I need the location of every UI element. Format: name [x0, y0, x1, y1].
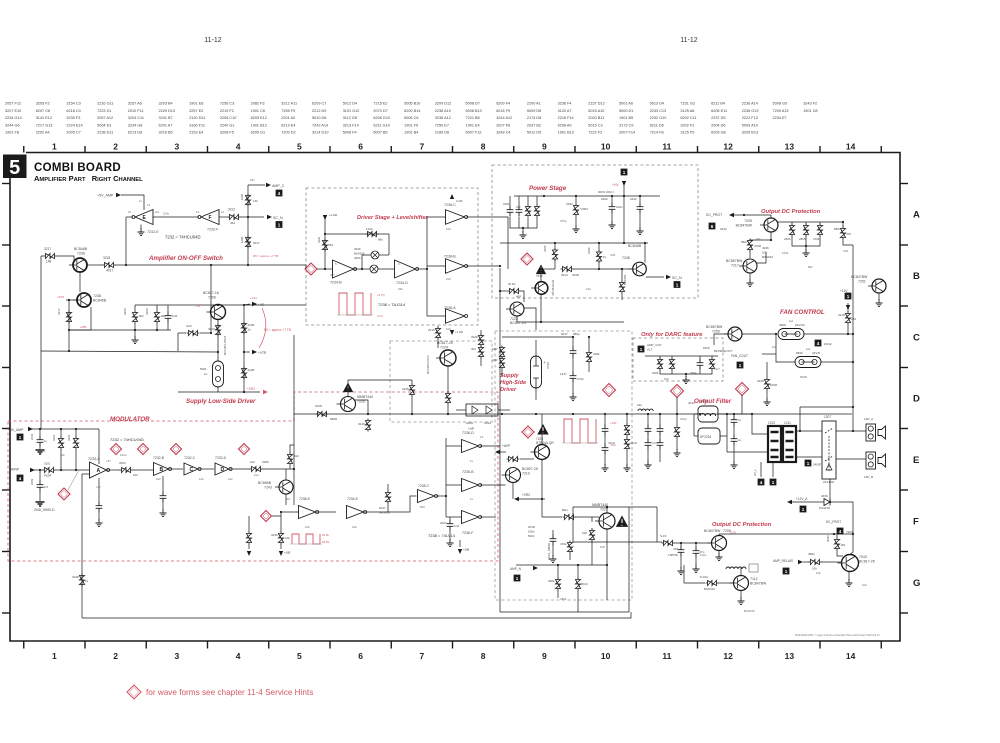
svg-text:2200 A1: 2200 A1 — [527, 102, 541, 106]
resistor 3277 — [709, 358, 714, 371]
svg-text:7234-B: 7234-B — [330, 281, 342, 285]
wire conn stub b — [772, 462, 774, 477]
wire — [598, 262, 600, 269]
ferrite KF2234 — [698, 428, 720, 444]
svg-text:A: A — [913, 210, 920, 221]
warning high-side — [343, 383, 353, 393]
svg-text:4k7: 4k7 — [330, 273, 335, 277]
svg-text:7219: 7219 — [522, 472, 530, 476]
wire — [39, 492, 41, 502]
wire — [446, 484, 462, 486]
junction — [210, 332, 212, 334]
inverter/op-amp inverter 7232-D — [215, 463, 229, 475]
svg-text:1k0: 1k0 — [446, 277, 451, 281]
resistor 6017 — [385, 491, 390, 504]
svg-text:FAN CONTROL: FAN CONTROL — [780, 309, 825, 316]
capacitor 2232 — [37, 436, 44, 447]
svg-text:10k: 10k — [816, 571, 821, 575]
wire — [134, 330, 136, 337]
wire vertical x69 — [68, 300, 70, 330]
inverter/op-amp inverter 7232-C — [184, 463, 198, 475]
svg-text:3218: 3218 — [838, 313, 845, 317]
junction — [60, 428, 62, 430]
svg-text:2232 G10: 2232 G10 — [650, 116, 667, 120]
wire — [718, 534, 720, 536]
resistor 3245 — [409, 384, 414, 397]
svg-text:7238 = 74LV14: 7238 = 74LV14 — [428, 533, 456, 538]
svg-text:1901 B13: 1901 B13 — [558, 131, 574, 135]
wire feedback rail — [325, 233, 389, 235]
wire relay coil down — [829, 479, 831, 502]
svg-text:47k: 47k — [756, 237, 761, 241]
svg-text:2240 G1: 2240 G1 — [220, 123, 235, 127]
svg-text:6: 6 — [711, 224, 714, 229]
svg-text:3218: 3218 — [103, 256, 110, 260]
svg-text:2070 D7: 2070 D7 — [373, 109, 387, 113]
svg-text:BC846B: BC846B — [74, 247, 88, 251]
svg-text:10k: 10k — [586, 287, 591, 291]
resistor 3204 — [73, 437, 78, 450]
svg-text:2236 A14: 2236 A14 — [742, 102, 758, 106]
svg-text:1k2: 1k2 — [156, 477, 161, 481]
svg-text:6208 A9: 6208 A9 — [558, 123, 572, 127]
svg-text:BC847BW: BC847BW — [736, 224, 753, 228]
wire — [577, 590, 579, 612]
svg-text:14: 14 — [147, 203, 151, 207]
diamond mod D — [239, 444, 250, 455]
svg-text:3234 G8: 3234 G8 — [128, 123, 143, 127]
resistor 3017 — [245, 236, 250, 249]
wire long bottom return — [82, 612, 631, 618]
svg-text:3205: 3205 — [543, 245, 547, 252]
resistor 2236 — [241, 322, 246, 335]
transistor transistor 7223 — [510, 302, 524, 316]
junction — [743, 214, 745, 216]
resistor 3212 — [228, 214, 241, 219]
svg-text:7221 B8: 7221 B8 — [466, 116, 480, 120]
svg-text:7210: 7210 — [536, 274, 543, 278]
svg-text:11: 11 — [662, 651, 671, 661]
wire — [878, 293, 880, 300]
svg-text:220p: 220p — [680, 417, 687, 421]
wire — [720, 435, 727, 437]
svg-text:3101 G12: 3101 G12 — [343, 109, 360, 113]
svg-text:5001: 5001 — [200, 367, 207, 371]
wire — [714, 334, 728, 345]
grid-ref square grid ref RINP — [17, 475, 24, 482]
wire — [575, 516, 599, 518]
svg-text:+VR2: +VR2 — [247, 387, 255, 391]
svg-text:3216 B5: 3216 B5 — [159, 131, 173, 135]
svg-text:100n: 100n — [616, 205, 623, 209]
wire 7236 to 3218 — [87, 264, 103, 266]
wire relay to spk1 — [836, 430, 866, 432]
wire — [427, 315, 446, 317]
svg-text:3280: 3280 — [262, 460, 269, 464]
wire — [621, 293, 623, 300]
svg-text:5004 E3: 5004 E3 — [97, 123, 111, 127]
svg-text:9: 9 — [542, 651, 547, 661]
inductor 5002 — [638, 409, 653, 411]
wire — [659, 414, 661, 425]
resistor 2215 — [435, 327, 440, 340]
junction — [247, 264, 249, 266]
junction — [659, 413, 661, 415]
wire — [718, 413, 752, 415]
svg-text:BAS316: BAS316 — [704, 587, 715, 591]
svg-text:6211 D6: 6211 D6 — [650, 123, 664, 127]
junction — [543, 195, 545, 197]
svg-text:2232: 2232 — [30, 433, 34, 440]
capacitor 2264 — [657, 425, 664, 436]
svg-text:1: 1 — [676, 283, 679, 288]
svg-text:1212: 1212 — [768, 421, 775, 425]
inductor 4012 — [698, 406, 718, 422]
svg-text:7232-F: 7232-F — [207, 228, 219, 232]
transistor transistor 7226 — [341, 397, 356, 412]
wire — [604, 455, 606, 466]
wire — [588, 337, 590, 351]
wire — [572, 337, 574, 347]
svg-text:7215 E2: 7215 E2 — [373, 102, 387, 106]
svg-text:2020 B11: 2020 B11 — [588, 116, 604, 120]
wire — [805, 236, 807, 246]
svg-text:1: 1 — [623, 170, 626, 175]
arrow DC_PROT — [729, 213, 734, 217]
wire x853 into 7043 — [850, 548, 853, 555]
svg-text:5006 C6: 5006 C6 — [404, 116, 418, 120]
wire — [387, 503, 389, 512]
svg-text:6207 C8: 6207 C8 — [36, 109, 50, 113]
svg-text:D: D — [913, 394, 920, 405]
svg-text:7251: 7251 — [858, 280, 866, 284]
svg-text:PH4148: PH4148 — [819, 506, 830, 510]
ground 2258 — [731, 461, 738, 469]
resistor 3229a — [478, 334, 483, 347]
ground 2262 — [645, 461, 652, 469]
resistor 3266 — [507, 456, 520, 461]
svg-text:6213 D8: 6213 D8 — [128, 131, 142, 135]
junction — [604, 413, 606, 415]
wire — [535, 388, 537, 400]
grid-ref square grid ref DARC — [638, 346, 645, 353]
arrow AMP_C — [266, 183, 271, 187]
resistor 3220 — [322, 239, 327, 252]
svg-text:10: 10 — [128, 210, 132, 214]
svg-text:2238: 2238 — [248, 368, 255, 372]
fuse 4609 — [778, 329, 804, 340]
wire — [621, 269, 623, 281]
svg-text:1901 F8: 1901 F8 — [5, 131, 19, 135]
svg-text:8k2: 8k2 — [808, 265, 813, 269]
svg-text:28.8V: 28.8V — [322, 540, 329, 544]
junction — [852, 333, 854, 335]
wire — [41, 255, 44, 257]
wire — [683, 565, 685, 583]
resistor 3202b — [567, 541, 572, 554]
capacitor 2264b — [602, 444, 609, 455]
svg-text:A012: A012 — [484, 421, 491, 425]
svg-text:100n: 100n — [528, 529, 535, 533]
svg-text:8.10A: 8.10A — [700, 575, 708, 579]
svg-text:+AVP: +AVP — [502, 444, 510, 448]
grid-ref square grid ref fan — [815, 340, 822, 347]
wire — [750, 239, 771, 240]
junction — [611, 195, 613, 197]
svg-text:6201 A7: 6201 A7 — [159, 123, 173, 127]
junction — [293, 468, 295, 470]
wire — [498, 409, 510, 411]
wire — [837, 550, 843, 556]
svg-text:7214 F8: 7214 F8 — [650, 131, 664, 135]
svg-text:470p: 470p — [560, 219, 567, 223]
capacitor 2211 — [165, 312, 172, 323]
svg-text:3238: 3238 — [72, 575, 79, 579]
junction — [598, 242, 600, 244]
varistor 4064 — [370, 265, 378, 273]
junction — [572, 413, 574, 415]
svg-text:7234-D: 7234-D — [396, 281, 408, 285]
junction — [217, 304, 219, 306]
wire vertical x500 power rail — [499, 268, 501, 612]
svg-text:+150: +150 — [610, 421, 617, 425]
svg-text:MMBT440: MMBT440 — [592, 503, 608, 507]
wire y322 — [517, 321, 624, 323]
svg-text:BC846B: BC846B — [628, 244, 642, 248]
svg-text:1k2: 1k2 — [133, 473, 138, 477]
wire — [805, 246, 807, 250]
junction — [606, 564, 608, 566]
svg-text:3245: 3245 — [402, 387, 409, 391]
wire vertical x41 supply — [40, 256, 42, 429]
junction — [522, 227, 524, 229]
warning power stage — [536, 265, 546, 275]
svg-text:470R: 470R — [754, 244, 762, 248]
svg-text:2213: 2213 — [546, 362, 550, 369]
svg-text:6218 C4: 6218 C4 — [66, 109, 80, 113]
svg-text:2251: 2251 — [503, 202, 510, 206]
resistor 3276 — [669, 358, 674, 371]
fuse 4610 — [795, 357, 821, 368]
wire +HV — [623, 183, 625, 196]
transistor transistor 7251 — [872, 279, 886, 293]
inverter/op-amp inverter 7238-C — [446, 210, 465, 225]
inverter/op-amp inverter 7238-C2 — [418, 490, 435, 503]
wire 7224 emitter — [447, 366, 449, 392]
svg-text:100u: 100u — [120, 453, 127, 457]
svg-text:U3_L: U3_L — [753, 469, 757, 476]
wire vertical +supply column — [247, 185, 249, 217]
wire x325 — [324, 216, 326, 269]
junction — [623, 242, 625, 244]
svg-text:A: A — [97, 468, 101, 474]
junction — [68, 329, 70, 331]
svg-text:BZX384-C5V6: BZX384-C5V6 — [426, 355, 430, 374]
svg-text:22k: 22k — [398, 287, 403, 291]
svg-text:SC_N: SC_N — [672, 276, 682, 280]
arrow +HV down — [622, 181, 626, 186]
ground 2227 — [447, 539, 454, 547]
transistor transistor 7250 — [728, 327, 742, 341]
wire — [527, 196, 529, 205]
dashed box supply high-side driver — [390, 341, 492, 422]
svg-text:47R: 47R — [610, 253, 615, 257]
resistor 3201 — [58, 437, 63, 450]
grid-ref square grid ref conn b — [770, 479, 777, 486]
transformer/opto 5001 — [213, 361, 224, 387]
wire — [591, 528, 593, 530]
svg-text:4: 4 — [236, 651, 241, 661]
wire — [480, 330, 482, 336]
arrow fan supply — [846, 305, 850, 310]
wire vertical x629 — [628, 507, 630, 612]
svg-text:5807: 5807 — [741, 240, 748, 244]
svg-text:0 (V): 0 (V) — [377, 314, 383, 318]
svg-text:5015 C3: 5015 C3 — [588, 123, 602, 127]
svg-text:13k: 13k — [253, 199, 258, 203]
diode block 4006 — [466, 404, 498, 416]
svg-text:562: 562 — [420, 505, 425, 509]
svg-text:5000 D1: 5000 D1 — [619, 109, 633, 113]
wire — [520, 458, 534, 460]
svg-text:MODULATOR: MODULATOR — [110, 416, 150, 423]
wire — [88, 465, 91, 467]
warning 7220 — [537, 424, 548, 435]
svg-text:8: 8 — [481, 651, 486, 661]
svg-text:5010 D8: 5010 D8 — [312, 116, 326, 120]
svg-text:4609: 4609 — [779, 323, 786, 327]
wire — [749, 273, 751, 280]
svg-text:9606: 9606 — [796, 351, 803, 355]
junction — [852, 533, 854, 535]
ground 3228 — [764, 398, 771, 406]
svg-text:301A: 301A — [561, 273, 568, 277]
arrow +2HR — [323, 215, 327, 220]
junction — [540, 268, 542, 270]
wire — [740, 591, 742, 599]
junction — [426, 268, 428, 270]
svg-text:1901 B12: 1901 B12 — [251, 123, 267, 127]
wire amp row — [516, 564, 607, 566]
resistor 3256 — [586, 351, 591, 364]
junction — [805, 245, 807, 247]
svg-text:4: 4 — [839, 529, 842, 534]
wire — [82, 473, 90, 475]
wire — [659, 450, 661, 463]
capacitor 2726 — [678, 546, 685, 557]
svg-text:2233 C13: 2233 C13 — [650, 109, 666, 113]
wire bottom amp box — [500, 611, 629, 613]
wire 7223 emitter — [516, 316, 518, 322]
junction — [770, 239, 772, 241]
coil 7112 base — [726, 567, 746, 569]
svg-text:MKW 100n h: MKW 100n h — [598, 190, 615, 194]
svg-text:10k: 10k — [812, 567, 817, 571]
ground DARC — [683, 376, 690, 384]
svg-text:+1 HR: +1 HR — [455, 330, 463, 334]
wire — [821, 361, 853, 363]
junction — [210, 264, 212, 266]
svg-text:5008 G5: 5008 G5 — [773, 102, 788, 106]
inverter/op-amp inverter 7234-E — [347, 506, 364, 519]
wire — [552, 546, 554, 557]
svg-text:1: 1 — [19, 435, 22, 440]
wire y407 — [800, 406, 853, 408]
wire — [776, 334, 795, 362]
svg-text:4012: 4012 — [688, 401, 695, 405]
svg-text:1n: 1n — [738, 418, 742, 422]
svg-text:High-Side: High-Side — [500, 380, 526, 386]
svg-text:AMP_C: AMP_C — [272, 184, 285, 188]
svg-text:+B: +B — [196, 304, 200, 308]
svg-text:3205 F2: 3205 F2 — [36, 102, 50, 106]
wire — [598, 243, 600, 251]
svg-text:2: 2 — [113, 651, 118, 661]
wire — [162, 476, 164, 492]
wire power stage top rail — [514, 195, 660, 197]
svg-text:1n0: 1n0 — [454, 524, 459, 528]
wire — [167, 305, 169, 312]
wire — [500, 290, 508, 292]
svg-text:7243: 7243 — [264, 486, 272, 490]
wire — [770, 232, 772, 240]
wire — [248, 544, 250, 549]
wire — [588, 364, 590, 373]
svg-text:1901 B5: 1901 B5 — [619, 116, 633, 120]
wire — [316, 511, 336, 513]
svg-text:2234 G14: 2234 G14 — [5, 116, 22, 120]
svg-text:12: 12 — [221, 210, 225, 214]
wire — [536, 196, 538, 205]
svg-text:1k2: 1k2 — [228, 477, 233, 481]
svg-text:1u: 1u — [470, 459, 474, 463]
svg-text:10k: 10k — [762, 250, 767, 254]
ground 2237 — [96, 519, 103, 527]
svg-text:7205: 7205 — [744, 219, 752, 223]
wire — [388, 234, 390, 255]
svg-text:Output DC Protection: Output DC Protection — [712, 522, 772, 528]
svg-text:3141 E12: 3141 E12 — [36, 116, 52, 120]
junction — [842, 221, 844, 223]
wire stub — [244, 351, 250, 353]
svg-text:+2 HR: +2 HR — [329, 213, 337, 217]
svg-text:1SP_A: 1SP_A — [864, 417, 873, 421]
junction — [39, 469, 41, 471]
junction — [852, 361, 854, 363]
transistor transistor 7210 — [535, 282, 548, 295]
wire — [671, 370, 673, 374]
junction — [243, 304, 245, 306]
capacitor 2263 — [645, 439, 652, 450]
svg-text:C29: C29 — [186, 324, 192, 328]
capacitor 2727 — [693, 547, 700, 558]
svg-text:14: 14 — [846, 142, 856, 152]
wire — [611, 196, 613, 203]
svg-text:7203: 7203 — [846, 530, 853, 534]
junction — [572, 336, 574, 338]
svg-text:COMBI BOARD: COMBI BOARD — [34, 162, 121, 174]
svg-text:ACAL_NMAD: ACAL_NMAD — [547, 543, 551, 560]
connector 1211 — [783, 426, 796, 462]
svg-text:4049: 4049 — [354, 247, 361, 251]
svg-text:5012 D5: 5012 D5 — [527, 131, 541, 135]
svg-text:Power Stage: Power Stage — [529, 185, 567, 192]
capacitor 2018 — [550, 535, 557, 546]
ground 2219 — [570, 393, 577, 401]
dashed box driver stage — [306, 188, 478, 325]
svg-text:2157 D12: 2157 D12 — [588, 102, 604, 106]
wire — [60, 429, 62, 438]
